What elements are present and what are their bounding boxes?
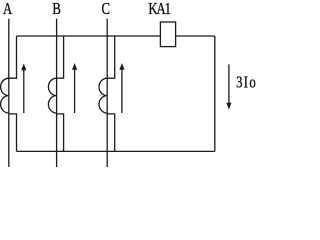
wire TA-C bottom secondary lead [107,114,115,151]
svg-text:C: C [102,1,110,19]
svg-text:A: A [3,1,12,19]
relay coil KA1 [160,22,175,47]
wire TA-C top secondary lead [107,36,115,78]
wire TA-B top secondary lead [57,36,64,78]
arrow secondary current B [72,63,77,113]
wire TA-B bottom secondary lead [57,114,64,151]
arrow secondary current A [21,64,26,114]
wire phase C conductor [106,19,108,167]
wire top bus left segment [17,35,161,37]
wire phase A conductor [8,19,10,167]
wire TA-A bottom secondary lead [9,114,17,151]
wire right return conductor [214,36,216,151]
wire TA-A top secondary lead [9,36,17,78]
arrow 3Io current [226,64,231,109]
transformer winding TA-B [48,78,56,113]
svg-text:3Io: 3Io [236,74,257,92]
wire phase B conductor [56,19,58,167]
arrow secondary current C [119,63,124,113]
transformer winding TA-C [99,78,107,113]
wire bottom bus [17,150,215,152]
svg-text:KA1: KA1 [148,1,170,19]
wire top bus right segment [176,35,215,37]
svg-text:B: B [52,1,60,19]
transformer winding TA-A [1,78,9,113]
